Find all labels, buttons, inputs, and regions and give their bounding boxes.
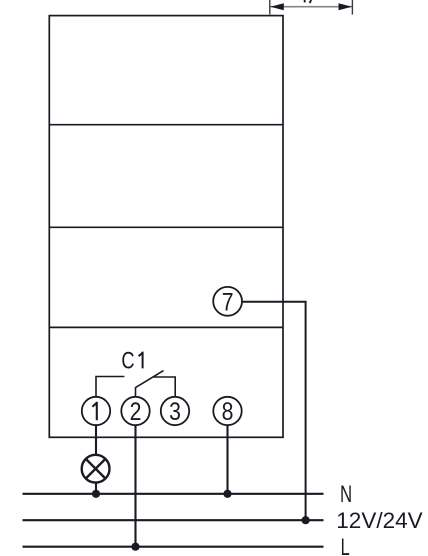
dimension extension line right: [351, 0, 353, 15]
terminal 7: [213, 287, 242, 316]
junction dot terminal2-L: [131, 543, 139, 551]
terminal 3: [161, 397, 189, 425]
relay contact blade: [136, 371, 164, 388]
junction dot lamp-N: [92, 490, 100, 498]
wire: contact from terminal 1: [96, 377, 124, 397]
wire lamp to N bus: [95, 482, 97, 494]
net 12V/24V bus line: [23, 519, 324, 521]
section divider 1: [49, 124, 283, 126]
dimension label 17 (clipped at top): [304, 0, 306, 2]
section divider 3: [49, 326, 283, 328]
net N bus line: [23, 493, 324, 495]
svg-text:8: 8: [222, 397, 234, 425]
svg-text:2: 2: [130, 397, 142, 425]
junction dot terminal8-N: [223, 490, 231, 498]
dimension line: [270, 6, 352, 8]
device outline: [49, 16, 283, 438]
dimension extension line left: [269, 0, 271, 14]
dimension arrowhead left: [270, 3, 283, 10]
wire from terminal 7 to 12V/24V bus: [242, 302, 306, 520]
terminal 1: [82, 397, 110, 425]
wire terminal 2 to L bus: [134, 425, 136, 547]
svg-text:3: 3: [169, 397, 181, 425]
wire: contact to terminal 3: [153, 377, 175, 397]
wire: common stub from terminal 2: [135, 387, 137, 396]
section divider 2: [49, 226, 283, 228]
svg-text:C: C: [121, 347, 134, 374]
svg-text:L: L: [341, 534, 350, 556]
wire terminal 1 to lamp: [95, 425, 97, 455]
lamp: [82, 455, 110, 483]
terminal 8: [213, 397, 241, 425]
dimension arrowhead right: [339, 3, 352, 10]
junction dot wire7-12V: [302, 516, 310, 524]
wire terminal 8 to N bus: [226, 425, 228, 494]
net L bus line: [23, 546, 324, 548]
svg-text:N: N: [340, 481, 352, 508]
terminal 2: [121, 397, 149, 425]
svg-text:7: 7: [222, 288, 234, 316]
svg-text:12V/24V: 12V/24V: [336, 508, 422, 533]
